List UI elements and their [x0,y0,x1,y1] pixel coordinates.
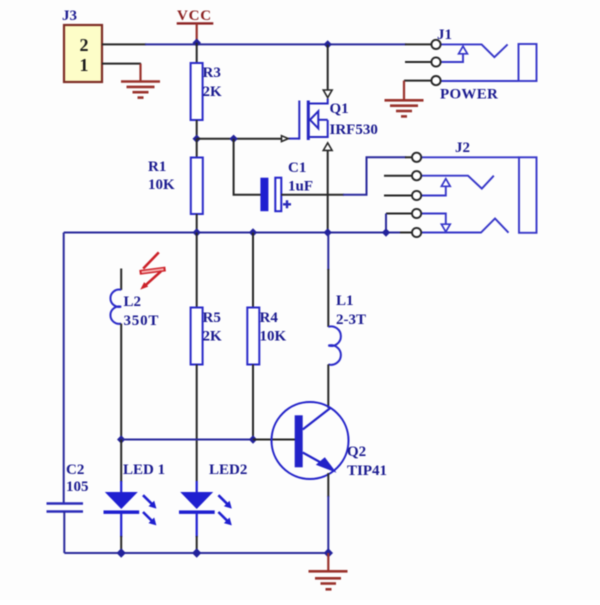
power VCC symbol [177,8,214,43]
J2 pin2 stub wire [384,175,412,177]
ground lead J3 [139,64,141,82]
node drain junction [324,40,332,48]
svg-text:TIP41: TIP41 [347,463,387,479]
wire gate branch down [234,139,261,195]
LED1 [104,440,157,554]
svg-text:1uF: 1uF [288,179,313,195]
wire Q2 emitter to ground bus [327,496,329,553]
svg-text:J2: J2 [455,140,470,156]
node base R4 junction [249,435,257,443]
ground bottom [309,571,348,589]
node bus R1 junction [193,228,201,236]
svg-text:J3: J3 [62,8,77,24]
wire VCC net top [145,43,328,45]
wire gate net [197,138,285,140]
wire R4 junction to Q2 base [253,439,295,441]
wire J2 pin1 stub [405,156,412,158]
J1 pin 3 [431,76,440,85]
ground lead J1 [403,81,405,101]
J1 pin 2 [431,57,440,66]
node bus R4 junction [249,228,257,236]
wire J3 pin1 stub [102,63,141,65]
svg-text:2K: 2K [203,329,223,345]
wire C1 output [281,194,344,196]
node VCC junction [193,39,201,47]
J2 pin 2 [412,171,421,180]
node R3 bottom junction [193,135,201,143]
resistor R3 [191,43,203,139]
node LED1 junction [117,435,125,443]
wire R5 to LED2 [196,365,198,482]
wire bottom bus [64,552,328,554]
node emitter ground junction [324,548,333,557]
svg-text:1: 1 [80,55,89,75]
J1 pin3 stub wire [404,80,432,82]
wire L2 to LED1 [120,324,122,440]
node bottom bus LED2 junction [192,548,201,557]
inductor L1 lead from bus [327,233,329,271]
svg-text:2-3T: 2-3T [336,312,366,328]
svg-text:L1: L1 [336,293,354,309]
J2 jack ring line [421,156,519,158]
J2 jack tip line [421,176,494,189]
wire base net [121,439,253,441]
J2 pin4 riser wire [385,214,387,233]
wire C1 to J2 pin1 [343,157,406,194]
node gate branch junction [229,135,237,143]
J2 upper switch arrow [441,179,450,187]
svg-text:R5: R5 [203,310,221,326]
svg-text:350T: 350T [124,313,160,329]
svg-text:R1: R1 [148,159,166,175]
svg-text:2: 2 [80,35,89,55]
inductor L1 lead black [327,269,329,327]
J2 pin5 stub wire [400,232,412,234]
svg-text:LED2: LED2 [209,462,247,478]
J2 pin4 stub wire [386,213,412,215]
J1 switch arrow [459,46,468,54]
svg-text:10K: 10K [260,329,287,345]
J1 pin2 stub wire [405,61,432,63]
svg-text:VCC: VCC [177,8,212,24]
LED2 [179,481,232,553]
wire C2 to bottom bus [63,512,65,554]
svg-text:Q1: Q1 [330,101,349,117]
wire J1 pin1 stub [405,43,432,45]
J1 jack tip line [441,44,508,57]
wire J3 pin2 stub [102,43,146,45]
svg-text:Q2: Q2 [347,444,366,460]
resistor R1 [191,139,203,233]
ground J3 [121,82,160,98]
svg-text:IRF530: IRF530 [330,122,378,138]
connector J3 [64,25,102,82]
J2 pin 5 [412,228,421,237]
J2 pin 4 [412,209,421,218]
transistor Q1 (IRF530 MOSFET) [289,99,328,141]
svg-text:L2: L2 [124,294,142,310]
capacitor C1 [260,178,291,212]
svg-text:105: 105 [66,479,89,495]
ground J1 [385,100,424,116]
resistor R4 [247,233,259,440]
wire Q2 emitter black [327,473,329,497]
svg-text:POWER: POWER [440,87,498,103]
wire left rail [63,233,65,504]
Q1 drain wire [327,44,329,89]
connector J1 [404,27,537,85]
J2 pin 3 [412,191,421,200]
svg-text:LED 1: LED 1 [123,462,165,478]
J2 lower switch arrow [441,224,450,232]
wire L1 to Q2 collector [327,364,329,408]
svg-text:R4: R4 [260,310,279,326]
node bus J2-pin4 junction [382,228,390,236]
J1 pin 1 [431,40,440,49]
J2 pin3 stub wire [384,195,412,197]
J2 jack body [519,157,537,233]
svg-text:C1: C1 [288,160,306,176]
Q1 source pin arrow [323,143,332,151]
svg-text:R3: R3 [203,65,221,81]
J2 upper switch arm [421,186,446,196]
connector J2 [384,140,537,237]
inductor L1 [328,326,341,364]
node bottom bus LED1 junction [117,548,126,557]
resistor R5 [191,233,203,365]
inductor L2 [110,290,121,324]
J2 jack sleeve line [421,219,508,233]
svg-text:10K: 10K [148,177,175,193]
svg-text:2K: 2K [203,84,223,100]
ground lead Q2 [327,553,329,571]
svg-text:C2: C2 [66,462,84,478]
transistor Q2 (TIP41) [272,402,349,479]
Q1 gate input arrow [282,136,289,142]
Q1 source wire [327,150,329,232]
inductor L2 stub [120,269,122,291]
J1 jack sleeve line [441,80,519,82]
J1 jack switch arm [441,54,463,63]
spark symbol [140,252,166,289]
wire top net to J1 [328,43,406,45]
J2 pin 1 [412,153,421,162]
Q1 drain pin arrow [323,90,332,98]
J1 jack body [519,44,537,81]
node bus Q1-source junction [324,228,332,236]
J2 lower switch arm [421,214,446,225]
wire main bus [64,232,400,234]
capacitor C2 [47,504,84,512]
